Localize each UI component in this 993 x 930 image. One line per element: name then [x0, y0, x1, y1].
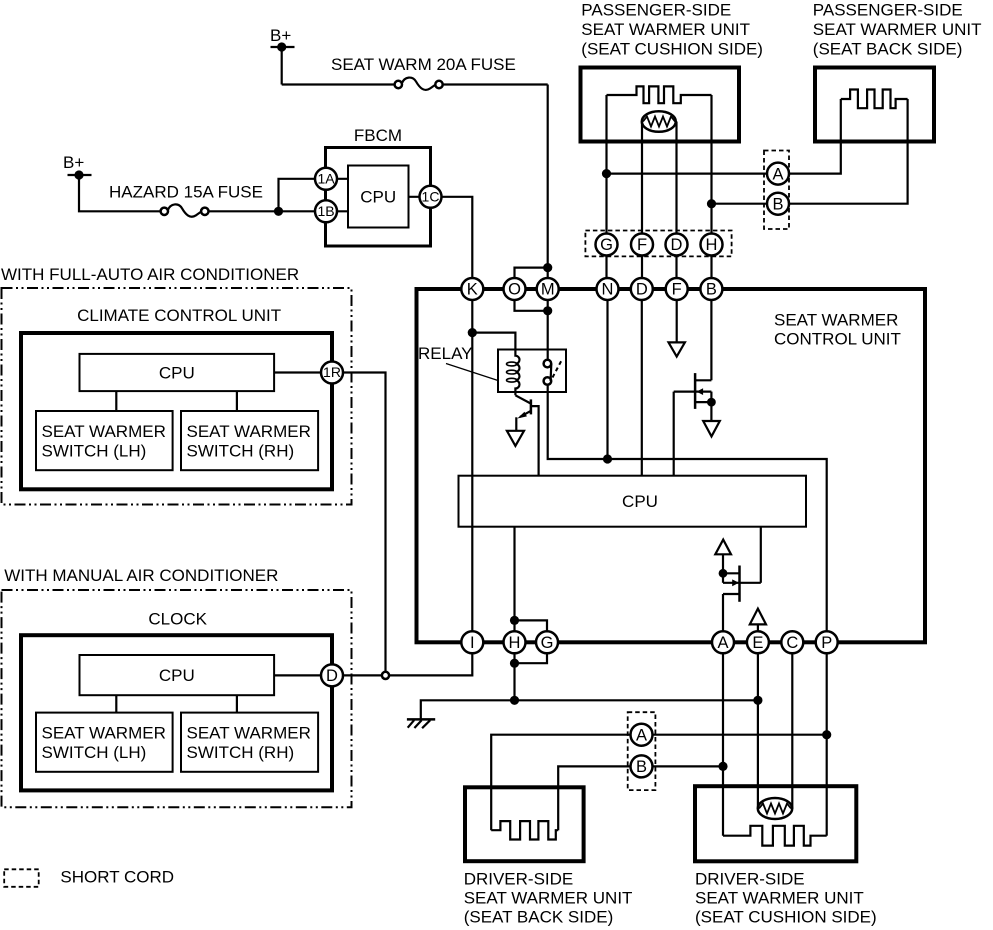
wire relay contact down and right to pin P	[548, 385, 827, 632]
svg-text:N: N	[602, 281, 614, 299]
heater element (passenger cushion)	[607, 86, 712, 103]
pin 1R	[321, 362, 343, 384]
junction dot ground net at H	[510, 696, 519, 705]
pin P	[816, 631, 838, 653]
svg-text:CPU: CPU	[159, 364, 195, 383]
wire option junction to pin I	[389, 653, 472, 675]
CPU (seat warmer control unit)	[459, 476, 807, 527]
svg-text:H: H	[706, 236, 718, 254]
pin C	[781, 631, 803, 653]
svg-text:A: A	[636, 726, 647, 744]
connector B (passenger short cord)	[767, 193, 789, 215]
pin D	[631, 278, 653, 300]
wire E down to thermostat	[757, 653, 759, 808]
wire short cord B left to driver back unit	[558, 766, 630, 830]
driver cushion unit box	[695, 786, 856, 861]
ground arrow (pin F)	[669, 342, 685, 356]
connector B (driver short cord)	[631, 755, 653, 777]
B+ arrow (above pin E)	[750, 609, 766, 632]
thermostat (passenger cushion)	[642, 111, 676, 132]
svg-text:1C: 1C	[422, 189, 440, 205]
svg-text:C: C	[786, 634, 798, 652]
short cord connector box (passenger)	[764, 151, 789, 230]
svg-text:B: B	[772, 195, 783, 213]
svg-text:B+: B+	[270, 26, 291, 45]
pin N	[597, 278, 619, 300]
svg-text:M: M	[541, 281, 555, 299]
svg-text:A: A	[772, 165, 783, 183]
ground net wire	[421, 700, 758, 719]
wire arrow to Q3	[722, 554, 724, 573]
wire CPU to switch RH (clock)	[236, 695, 238, 712]
junction dot below H	[510, 659, 519, 668]
wire to SEAT WARM fuse	[282, 83, 395, 85]
wire B+ down to fuse row	[281, 47, 283, 85]
wire lead G to short cord A	[607, 173, 768, 175]
wire N down to relay net	[606, 300, 608, 459]
CPU (climate control)	[80, 354, 275, 391]
wire short cord A left to driver back unit	[491, 735, 630, 831]
svg-text:HAZARD 15A FUSE: HAZARD 15A FUSE	[109, 183, 263, 202]
wire Q3 gate to CPU	[760, 527, 762, 583]
ground arrow (Q2 source)	[703, 421, 720, 436]
svg-text:WITH MANUAL AIR CONDITIONER: WITH MANUAL AIR CONDITIONER	[4, 566, 278, 585]
svg-text:H: H	[509, 634, 521, 652]
pin K	[461, 278, 483, 300]
heater element (driver back)	[491, 821, 558, 839]
svg-text:WITH FULL-AUTO AIR CONDITIONE: WITH FULL-AUTO AIR CONDITIONER	[1, 265, 299, 284]
connector A (passenger short cord)	[767, 163, 789, 185]
wire B down to MOSFET Q2	[710, 300, 712, 381]
wire 1B to CPU	[330, 210, 348, 212]
fuse HAZARD 15A FUSE	[109, 183, 263, 217]
seat warmer control unit box	[417, 289, 926, 642]
wire loop H to G (below pins)	[515, 653, 548, 663]
leader line RELAY to relay box	[446, 364, 498, 381]
connector row box G F D H	[585, 231, 731, 257]
svg-text:CLIMATE CONTROL UNIT: CLIMATE CONTROL UNIT	[77, 306, 281, 325]
svg-text:E: E	[752, 634, 763, 652]
pin I	[461, 631, 483, 653]
pin G	[536, 631, 558, 653]
svg-text:G: G	[600, 236, 613, 254]
wire lead H to short cord B	[712, 203, 768, 205]
wire short cord B to passenger back right lead	[789, 99, 908, 204]
option junction (open circle)	[382, 672, 389, 679]
svg-text:CLOCK: CLOCK	[148, 610, 207, 629]
wire CPU to seat warmer switch RH	[236, 391, 238, 411]
wire K down to pin I	[471, 300, 473, 632]
MOSFET Q3 (driver heater)	[719, 566, 761, 632]
pin H	[504, 631, 526, 653]
svg-text:B: B	[636, 758, 647, 776]
wire G to pin N	[605, 256, 607, 279]
wire M down to relay contact	[547, 300, 549, 360]
node B+ (top, seat warm feed)	[270, 26, 295, 52]
pin O	[504, 278, 526, 300]
svg-text:A: A	[717, 634, 728, 652]
pin B	[700, 278, 722, 300]
node B+ (left, hazard feed)	[63, 153, 92, 180]
svg-text:F: F	[637, 236, 647, 254]
climate control unit box	[21, 333, 332, 489]
driver back unit box	[465, 787, 584, 861]
heater element (passenger back)	[841, 90, 908, 109]
legend short cord box	[4, 869, 39, 887]
wire CPU to D	[274, 674, 323, 676]
svg-text:SEAT WARMERSWITCH (RH): SEAT WARMERSWITCH (RH)	[187, 422, 311, 460]
wire H to pin B	[710, 256, 712, 279]
junction dot on A wire at short cord B	[718, 762, 727, 771]
junction dot on lead H	[707, 199, 716, 208]
CPU (clock)	[80, 655, 275, 695]
junction dot on K wire	[468, 328, 477, 337]
junction dot hazard feed split	[274, 207, 283, 216]
pin E	[747, 631, 769, 653]
svg-text:P: P	[821, 634, 832, 652]
chassis ground	[407, 719, 435, 728]
svg-text:B: B	[706, 281, 717, 299]
connector G	[596, 234, 618, 256]
transistor Q1 (relay driver)	[515, 395, 538, 475]
wire D to pin F	[675, 256, 677, 279]
pin 1C	[420, 186, 442, 208]
wire fuse to M branch vertical	[443, 83, 548, 85]
wire H pin down to ground net	[513, 653, 515, 700]
connector H	[701, 234, 723, 256]
svg-text:1A: 1A	[317, 171, 335, 187]
wire P down to driver cushion heater	[826, 653, 828, 836]
wire Q2 gate to CPU	[673, 392, 675, 476]
seat warmer switch RH (clock)	[181, 713, 318, 772]
pin M	[537, 278, 559, 300]
wire CPU to H pin	[513, 527, 515, 632]
junction dot on lead G	[602, 169, 611, 178]
CPU (FBCM)	[348, 166, 409, 228]
connector F	[631, 234, 653, 256]
svg-text:O: O	[508, 281, 521, 299]
wire K branch to relay coil	[472, 333, 515, 351]
thermostat (driver cushion)	[758, 798, 792, 819]
B+ arrow (above Q3)	[715, 540, 731, 555]
svg-text:FBCM: FBCM	[354, 126, 402, 145]
svg-text:CPU: CPU	[360, 188, 396, 207]
passenger cushion unit box	[581, 68, 740, 142]
svg-text:1B: 1B	[317, 203, 334, 219]
connector A (driver short cord)	[631, 724, 653, 746]
junction dot below M	[543, 306, 552, 315]
wire lead F (thermostat left)	[641, 122, 643, 234]
seat warmer switch LH (clock)	[36, 713, 173, 772]
svg-text:SHORT CORD: SHORT CORD	[60, 868, 174, 887]
svg-text:D: D	[326, 667, 338, 685]
wire short cord A right to P net	[653, 734, 827, 736]
wire lead G (passenger cushion left)	[605, 95, 607, 234]
wire CPU to 1R	[274, 371, 323, 373]
relay coil	[507, 351, 520, 395]
junction dot H loop top	[510, 616, 519, 625]
junction dot above M	[543, 263, 552, 272]
svg-text:CPU: CPU	[159, 666, 195, 685]
passenger back unit box	[815, 68, 934, 142]
wire C down to thermostat	[791, 653, 793, 808]
seat warmer switch RH (climate)	[181, 411, 318, 470]
wire 1A to CPU	[330, 178, 348, 180]
wire fuse to pin 1B	[209, 210, 316, 212]
ground arrow (relay driver emitter)	[507, 431, 524, 446]
wire CPU to switch LH (clock)	[115, 695, 117, 712]
wire short cord A to passenger back left lead	[789, 99, 841, 174]
wire short cord B right to A net	[653, 765, 724, 767]
wire lead H (passenger cushion right)	[710, 95, 712, 234]
wire 1R down to option junction	[343, 373, 386, 672]
fuse SEAT WARM 20A FUSE	[331, 55, 516, 90]
junction dot on P wire at short cord A	[822, 730, 831, 739]
svg-text:K: K	[467, 281, 478, 299]
short cord connector box (driver)	[628, 712, 656, 790]
svg-text:RELAY: RELAY	[418, 344, 473, 363]
svg-text:B+: B+	[63, 153, 84, 172]
relay contact	[544, 360, 562, 385]
wire O loop below to M	[515, 300, 548, 311]
svg-text:PASSENGER-SIDESEAT WARMER UNIT: PASSENGER-SIDESEAT WARMER UNIT(SEAT BACK…	[813, 1, 982, 59]
wire D to option junction	[343, 674, 382, 676]
pin 1A	[315, 168, 337, 190]
pin 1B	[315, 200, 337, 222]
wire branch up to pin 1A	[279, 179, 316, 212]
svg-text:G: G	[541, 634, 554, 652]
wire A pin down to driver cushion heater	[722, 653, 724, 836]
connector D	[666, 234, 688, 256]
svg-text:F: F	[672, 281, 682, 299]
wire 1C to pin K	[442, 197, 473, 278]
svg-text:D: D	[671, 236, 683, 254]
svg-text:SEAT WARM 20A FUSE: SEAT WARM 20A FUSE	[331, 55, 516, 74]
svg-text:SEAT WARMERCONTROL UNIT: SEAT WARMERCONTROL UNIT	[774, 311, 901, 349]
wire B+ down to hazard fuse	[79, 175, 161, 211]
pin D (clock)	[321, 664, 343, 686]
wire D down to CPU	[641, 300, 643, 476]
pin A	[712, 631, 734, 653]
svg-text:SEAT WARMERSWITCH (RH): SEAT WARMERSWITCH (RH)	[187, 724, 311, 762]
wire lead D (thermostat right)	[675, 122, 677, 234]
FBCM module	[326, 126, 431, 246]
junction dot ground net at E	[753, 696, 762, 705]
junction dot N on relay net	[603, 454, 612, 463]
clock box	[21, 635, 332, 790]
wire loop H to G (above pins)	[515, 620, 548, 631]
full-auto option box	[2, 288, 352, 505]
pin F	[666, 278, 688, 300]
svg-text:I: I	[470, 634, 475, 652]
wire long vertical to pin M	[547, 85, 549, 279]
svg-text:D: D	[636, 281, 648, 299]
seat warmer switch LH (climate)	[36, 411, 173, 470]
wire CPU to 1C	[409, 196, 429, 198]
relay box	[498, 350, 566, 393]
svg-text:CPU: CPU	[622, 492, 658, 511]
svg-text:1R: 1R	[323, 364, 341, 380]
heater element (driver cushion)	[723, 826, 827, 846]
wire F to pin D	[641, 256, 643, 279]
wire O loop above to M	[515, 268, 548, 279]
MOSFET Q2 (passenger heater driver)	[674, 373, 716, 421]
wire CPU to seat warmer switch LH	[115, 391, 117, 411]
manual option box	[2, 590, 352, 807]
wire F down to arrow	[676, 300, 678, 343]
